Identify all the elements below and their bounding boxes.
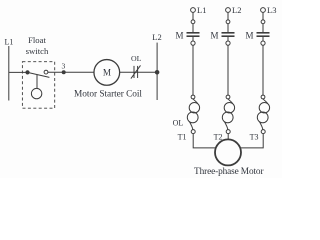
- contact M phase C: [257, 20, 270, 45]
- wire contact to heater: [192, 45, 194, 95]
- wire T2 to motor: [227, 134, 229, 140]
- svg-text:switch: switch: [26, 46, 49, 56]
- node 3 junction dot: [62, 71, 65, 74]
- wire contact to heater: [227, 45, 229, 95]
- svg-text:L3: L3: [267, 5, 276, 15]
- phase column B (L2/T2): [210, 5, 241, 142]
- svg-text:L1: L1: [5, 38, 14, 47]
- float rod: [36, 75, 38, 89]
- rail L2: [156, 43, 158, 100]
- svg-text:M: M: [175, 30, 183, 40]
- overload heater OL phase B: [222, 95, 234, 134]
- overload heater OL phase A: [187, 95, 199, 134]
- wire L1 rail to float switch: [9, 71, 28, 73]
- overload heater OL phase C: [257, 95, 269, 134]
- wire terminal to contact: [192, 12, 194, 20]
- float switch enclosure (dashed): [22, 62, 54, 108]
- junction dot at L2 rail: [155, 71, 159, 75]
- wire T1 to motor: [193, 134, 216, 148]
- motor starter coil M (circle): [94, 60, 120, 86]
- phase column C (L3/T3): [240, 5, 277, 148]
- svg-text:T1: T1: [178, 133, 187, 142]
- svg-text:T2: T2: [214, 133, 223, 142]
- svg-text:L2: L2: [152, 32, 161, 42]
- svg-text:L2: L2: [232, 5, 241, 15]
- wire terminal to contact: [227, 12, 229, 20]
- svg-text:3: 3: [62, 61, 66, 70]
- svg-text:OL: OL: [173, 118, 184, 127]
- float switch blade: [28, 72, 50, 77]
- three-phase motor MTR1: [215, 139, 241, 165]
- wire terminal to contact: [262, 12, 264, 20]
- wire contact to heater: [262, 45, 264, 95]
- svg-text:T3: T3: [250, 133, 259, 142]
- svg-text:M: M: [103, 68, 111, 78]
- terminal L2: [226, 8, 231, 13]
- phase column A (L1/T1): [173, 5, 217, 148]
- terminal L1: [191, 8, 196, 13]
- svg-text:L1: L1: [197, 5, 206, 15]
- terminal L3: [261, 8, 266, 13]
- rail L1: [8, 46, 10, 101]
- float ball: [31, 88, 41, 98]
- contact M phase B: [222, 20, 235, 45]
- svg-text:Float: Float: [28, 35, 46, 45]
- wire T3 to motor: [240, 134, 263, 148]
- wire switch to coil: [48, 71, 94, 73]
- svg-text:M: M: [245, 30, 253, 40]
- label Float switch: [26, 35, 49, 56]
- contact M phase A: [187, 20, 200, 45]
- float switch FS1 left terminal dot: [26, 71, 29, 74]
- overload contact OL (normally-closed): [131, 65, 141, 78]
- svg-text:OL: OL: [131, 54, 142, 63]
- svg-text:M: M: [210, 30, 218, 40]
- svg-text:Motor Starter Coil: Motor Starter Coil: [74, 89, 142, 99]
- svg-text:Three-phase Motor: Three-phase Motor: [194, 167, 264, 177]
- float switch right terminal (open circle): [44, 70, 48, 74]
- wire coil to OL contact: [120, 71, 157, 73]
